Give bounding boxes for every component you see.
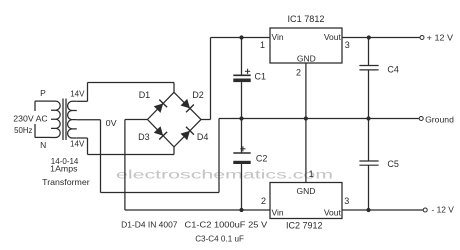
wire IC2 Vout to -12V terminal — [342, 209, 423, 211]
svg-text:- 12 V: - 12 V — [432, 204, 455, 214]
wire ground rail — [219, 118, 419, 120]
junction C4 top on +12 rail — [367, 35, 371, 39]
svg-text:50Hz: 50Hz — [14, 125, 32, 135]
wire center tap 0V down — [77, 120, 101, 193]
label 230V AC — [13, 113, 47, 123]
capacitor C1 — [233, 38, 250, 119]
svg-text:C2: C2 — [256, 154, 268, 164]
svg-text:14V: 14V — [70, 138, 85, 148]
wire bridge + output to IC1 Vin rail — [201, 38, 270, 120]
svg-text:D1: D1 — [139, 90, 151, 100]
svg-text:IC1 7812: IC1 7812 — [288, 14, 325, 24]
svg-text:electroschematics.com: electroschematics.com — [116, 170, 333, 182]
junction C1 top on +12 rail — [239, 35, 243, 39]
bridge rectifier diamond wires — [148, 92, 202, 147]
regulator IC2 7912 box — [270, 183, 342, 219]
wire bridge - output to IC2 Vin rail — [125, 120, 270, 211]
svg-text:N: N — [40, 140, 46, 150]
regulator IC1 7812 box — [270, 28, 342, 63]
svg-text:P: P — [40, 88, 46, 98]
svg-text:C1-C2 1000uF 25 V: C1-C2 1000uF 25 V — [185, 220, 268, 230]
svg-text:IC2 7912: IC2 7912 — [286, 221, 323, 231]
svg-text:Transformer: Transformer — [42, 177, 90, 187]
svg-text:Ground: Ground — [425, 114, 454, 124]
diode D4 — [181, 127, 194, 140]
svg-text:+ 12 V: + 12 V — [427, 33, 454, 43]
svg-text:C4: C4 — [387, 65, 399, 75]
svg-text:Vout: Vout — [324, 207, 342, 217]
wire IC2 GND pin 1 — [305, 119, 307, 183]
wire ground return to rail — [101, 119, 220, 193]
capacitor C5 — [359, 119, 378, 211]
svg-text:1: 1 — [260, 40, 265, 50]
wire secondary bottom 14V to bridge bottom — [77, 138, 174, 155]
ground terminal — [419, 117, 423, 121]
svg-text:2: 2 — [261, 196, 266, 206]
svg-text:230V AC: 230V AC — [13, 113, 47, 123]
svg-text:3: 3 — [345, 40, 350, 50]
junction C5 bottom on -12 rail — [366, 208, 370, 212]
svg-text:GND: GND — [297, 186, 316, 196]
wire IC1 GND pin 2 — [305, 63, 307, 119]
diode D1 — [154, 100, 167, 113]
transformer core — [63, 99, 66, 141]
junction C1-C2 on ground rail — [239, 116, 243, 120]
svg-text:D4: D4 — [197, 132, 209, 142]
svg-text:C3-C4 0.1 uF: C3-C4 0.1 uF — [195, 233, 244, 243]
junction C2 bottom on -12 rail — [239, 208, 243, 212]
transformer T1 primary winding — [35, 101, 60, 137]
junction GND pins on ground rail — [304, 116, 308, 120]
svg-text:C1: C1 — [255, 72, 267, 82]
svg-text:2: 2 — [296, 67, 301, 77]
svg-text:0V: 0V — [106, 118, 117, 128]
svg-text:1: 1 — [309, 169, 314, 179]
svg-text:D3: D3 — [138, 132, 150, 142]
capacitor C4 — [359, 38, 378, 119]
svg-text:D1-D4 IN 4007: D1-D4 IN 4007 — [121, 220, 178, 230]
svg-text:Vout: Vout — [324, 32, 342, 42]
capacitor C2 — [233, 119, 250, 211]
diode D3 — [154, 126, 167, 139]
wire AC source line P-N — [34, 101, 36, 137]
svg-text:14V: 14V — [70, 88, 85, 98]
svg-text:1Amps: 1Amps — [50, 164, 77, 174]
svg-text:3: 3 — [344, 196, 349, 206]
transformer T1 secondary winding — [68, 101, 77, 138]
svg-text:GND: GND — [297, 54, 316, 64]
-12V terminal — [423, 208, 427, 212]
svg-text:D2: D2 — [192, 90, 204, 100]
svg-text:C5: C5 — [387, 159, 399, 169]
+12V terminal — [420, 36, 424, 40]
svg-text:Vin: Vin — [272, 32, 284, 42]
wire IC1 Vout to +12V terminal — [342, 37, 420, 39]
svg-text:Vin: Vin — [272, 207, 284, 217]
diode D2 — [181, 99, 194, 112]
junction C4-C5 on ground rail — [366, 116, 370, 120]
wire secondary top 14V to bridge top — [77, 83, 174, 102]
